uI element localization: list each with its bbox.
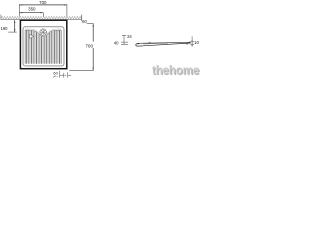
drain emblem: outer circle (40, 29, 47, 36)
watermark thehome (152, 64, 202, 77)
side view: tray profile top edge inner line (143, 42, 168, 45)
side view: dimension 10 lower tick (190, 43, 194, 45)
dimension 60 bottom: second extension line (66, 72, 68, 78)
ribbed floor: left boundary (24, 30, 26, 64)
dimension 60 bottom: left extension line (59, 71, 61, 78)
svg-text:40: 40 (114, 41, 119, 46)
plan view outer square (tray rim) (20, 20, 66, 68)
dimension 700 top: line (19, 4, 67, 6)
dimension 60 bottom: right arrowhead (64, 75, 66, 76)
side view: dimension 40 lower tick (121, 44, 128, 46)
plan view inner rounded rectangle (23, 27, 64, 66)
rib top envelope upper arc (25, 30, 61, 36)
dimension 700 top: right arrow (64, 4, 67, 5)
wall face line (1, 19, 82, 21)
side view: tray profile top edge upper line (138, 42, 191, 43)
dimension 350: right extension line to drain centre (42, 13, 44, 17)
dimension 60 bottom: right extension line (63, 73, 65, 78)
side view: tray profile tip knob (189, 41, 191, 44)
dimension 700 right: top arrow (93, 24, 94, 27)
dimension 350: right arrow (40, 12, 43, 13)
dimension 350: line (19, 12, 43, 14)
slope direction triangle (30, 34, 34, 38)
dimension 190 left: drain centre tick (8, 31, 16, 33)
dimension 60 bottom: leader arrow tail (53, 76, 56, 78)
dimension 60 bottom: dim line (60, 74, 64, 76)
dimension 700 top: left extension line (18, 4, 20, 16)
svg-text:700: 700 (85, 43, 93, 48)
side view: dimension 24 vertical line (123, 35, 125, 44)
dimension 60 bottom: right arrow tail (68, 75, 71, 77)
dimension 700 right: bottom extension line (69, 70, 93, 72)
side view: dimension 40 upper tick (121, 41, 128, 43)
dimension 190 left: top arrow (14, 20, 15, 23)
side view: dimension 10 vertical line (191, 36, 193, 46)
wall hatch right end cap (81, 14, 83, 21)
dimension 700 top: left arrow (19, 4, 22, 5)
dimension 190 left: vertical line (14, 20, 16, 32)
dimension 60 bottom: leader dot (56, 75, 59, 78)
svg-text:60: 60 (82, 19, 87, 24)
side view: waste bump on rim (148, 42, 151, 45)
ribbed floor: right boundary (61, 30, 63, 64)
side view: dimension 10 upper tick (190, 41, 194, 43)
drain emblem: white backing (39, 28, 47, 36)
wall hatch left end cap (0, 15, 2, 20)
drain emblem: cross pattern (40, 29, 47, 36)
wall hatching band (1, 16, 82, 19)
dimension 190 left: bottom arrow (14, 29, 15, 32)
svg-text:10: 10 (194, 40, 199, 45)
dimension 700 right: vertical line upper part (92, 24, 94, 42)
side view: dimension 24 top tick (122, 34, 126, 36)
side view: tray profile bottom edge (143, 43, 190, 46)
dimension 700 right: bottom arrow (93, 68, 94, 71)
ribbed floor: vertical ribs (26, 31, 60, 64)
svg-text:60: 60 (53, 70, 58, 75)
svg-text:700: 700 (39, 0, 47, 5)
svg-text:350: 350 (28, 6, 36, 11)
side view: dimension 10 lower arrow (192, 44, 193, 46)
side view: dimension 10 upper arrow (192, 40, 193, 42)
svg-text:190: 190 (1, 26, 9, 31)
svg-text:24: 24 (127, 34, 132, 39)
dimension 350: left arrow (19, 12, 22, 13)
side view: dimension 10 tip tick (186, 43, 188, 45)
drain emblem: petal dots (41, 30, 45, 34)
dimension 700 top: right extension line (66, 4, 68, 16)
rib top envelope lower arc (25, 29, 61, 35)
dimension 700 right: vertical line lower part (92, 48, 94, 71)
side view: tray profile end bead (136, 44, 143, 46)
dimension 60 top-right: tick (87, 23, 94, 25)
